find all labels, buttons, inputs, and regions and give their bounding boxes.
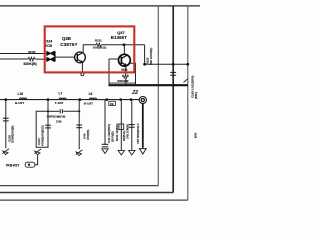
wire upper input [0, 53, 47, 55]
junction node [78, 98, 81, 101]
inductor L8 [89, 98, 96, 100]
junction node [78, 110, 80, 112]
junction node [130, 98, 133, 101]
svg-text:R118: R118 [145, 57, 149, 64]
wire collector runout right [145, 45, 188, 65]
junction node [123, 43, 126, 46]
svg-text:100P(CH)(B16): 100P(CH)(B16) [47, 115, 66, 119]
wire Q37 emitter [125, 66, 127, 75]
wire Q3B emitter down [81, 62, 83, 72]
vertical bus wire V1 [157, 6, 159, 186]
chassis ground [102, 149, 108, 154]
CRT lead [142, 104, 144, 148]
connector J2 [139, 97, 146, 104]
capacitor C41 column [104, 100, 106, 144]
ground [76, 150, 83, 156]
capacitor C136 column [5, 101, 7, 149]
junction node [47, 110, 49, 112]
svg-text:ECB: ECB [45, 44, 53, 48]
svg-text:C41 10M(50V): C41 10M(50V) [107, 124, 111, 143]
svg-text:B1366T: B1366T [111, 35, 127, 40]
resistor R28 [28, 57, 35, 60]
bottom bus wire B2 [0, 192, 173, 194]
resistor R112 [122, 75, 128, 78]
wire Q37 collector [123, 45, 125, 55]
svg-text:100(2B11): 100(2B11) [93, 46, 107, 50]
capacitor C119 [170, 72, 176, 75]
resistor R111 [96, 43, 102, 46]
wire Q37 base [109, 58, 119, 60]
svg-text:C137: C137 [37, 138, 41, 145]
svg-text:C40: C40 [82, 133, 86, 139]
chassis ground [118, 150, 124, 155]
ground [2, 149, 9, 155]
capacitor C137 column [36, 100, 48, 148]
wire rect bottom [109, 82, 136, 84]
svg-text:L16: L16 [18, 92, 24, 96]
bottom bus wire B3 [0, 199, 188, 201]
junction node [186, 63, 189, 66]
svg-text:56K 1/10W(F): 56K 1/10W(F) [149, 48, 153, 65]
junction node [4, 98, 7, 101]
vertical bus wire V2 [172, 6, 174, 193]
bottom bus wire B1 [0, 185, 158, 187]
wire main row [0, 99, 139, 101]
svg-text:Q3B: Q3B [62, 36, 71, 41]
inductor L16 [20, 98, 27, 100]
resistor R141 column [120, 100, 122, 150]
svg-text:J2: J2 [132, 90, 139, 96]
svg-text:R141 1K(B11): R141 1K(B11) [115, 123, 119, 141]
off-page triangle [139, 149, 146, 154]
ferrite bead FB [109, 101, 116, 105]
wire collector run [102, 44, 145, 46]
svg-text:7KB-R27: 7KB-R27 [6, 164, 20, 168]
junction node [106, 98, 109, 101]
svg-text:(50V)(B): (50V)(B) [111, 131, 115, 142]
svg-text:R111: R111 [95, 38, 102, 42]
transistor Q3B [75, 52, 86, 63]
svg-text:B-1/2T: B-1/2T [15, 101, 24, 105]
svg-text:R28: R28 [28, 50, 36, 55]
diode pair D104 [47, 51, 55, 61]
wire base drop [108, 59, 110, 84]
wire Q37 right branch [130, 63, 136, 84]
wire lower input [0, 58, 28, 60]
top bus wire [0, 5, 200, 7]
svg-text:(B50): (B50) [194, 92, 198, 99]
inductor L7 [59, 98, 66, 100]
wire Q3B collector up [83, 45, 96, 52]
svg-text:470P(B): 470P(B) [86, 130, 90, 140]
svg-text:C42 10M(B): C42 10M(B) [126, 124, 130, 139]
wire base Q3B [55, 56, 75, 58]
svg-text:CRT 5MV(B03)-A: CRT 5MV(B03)-A [136, 123, 140, 144]
svg-text:B-1/2T: B-1/2T [84, 101, 93, 105]
svg-text:L7: L7 [59, 92, 63, 96]
vertical bus wire V3 [187, 6, 189, 200]
junction node [143, 63, 146, 66]
capacitor C40 column [78, 100, 80, 150]
svg-text:C3875Y: C3875Y [60, 42, 78, 47]
svg-text:100M(35V)(B): 100M(35V)(B) [11, 125, 15, 143]
junction node [119, 98, 122, 101]
svg-text:L8: L8 [89, 92, 93, 96]
terminal pin [81, 73, 84, 76]
svg-text:C39: C39 [56, 119, 62, 123]
svg-text:C119 0.022(B50): C119 0.022(B50) [191, 76, 195, 98]
svg-text:470M(16V)(B13): 470M(16V)(B13) [41, 125, 45, 146]
capacitor C42 column [131, 100, 133, 150]
ground [34, 149, 41, 155]
svg-text:820K(B): 820K(B) [24, 62, 37, 66]
junction node [172, 63, 175, 66]
junction node [47, 98, 50, 101]
red highlight box [45, 26, 135, 72]
chassis ground [128, 149, 130, 151]
polarity mark [184, 79, 188, 83]
capacitor C39 branch [48, 110, 59, 112]
svg-text:33K/2W: 33K/2W [117, 79, 128, 83]
thick ground bus [109, 84, 188, 86]
transistor Q37 [119, 54, 131, 66]
svg-text:T-1/2T: T-1/2T [55, 101, 64, 105]
svg-text:1K(B11): 1K(B11) [122, 131, 126, 141]
svg-text:B35: B35 [194, 132, 198, 138]
svg-text:FB: FB [110, 102, 114, 106]
